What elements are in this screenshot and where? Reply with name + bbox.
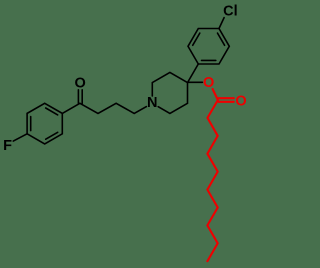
svg-text:F: F: [3, 138, 12, 154]
svg-text:O: O: [203, 75, 214, 91]
svg-text:O: O: [235, 94, 246, 110]
svg-text:O: O: [75, 76, 86, 92]
svg-text:Cl: Cl: [223, 3, 238, 19]
svg-text:N: N: [147, 95, 157, 111]
